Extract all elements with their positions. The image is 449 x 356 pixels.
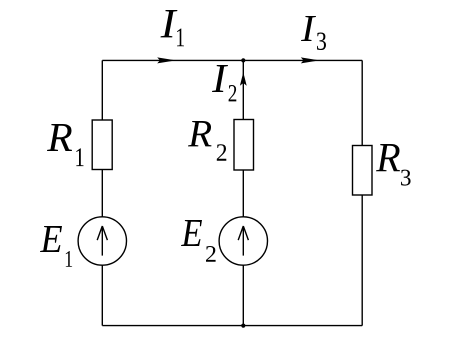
wire middle branch lower <box>242 265 244 325</box>
wire middle branch upper <box>242 60 244 119</box>
label I1 <box>161 10 185 46</box>
current arrow I3 <box>301 57 320 63</box>
wire top right segment <box>243 59 362 61</box>
resistor R2 <box>234 120 254 171</box>
wire left branch middle <box>101 170 103 218</box>
wire middle branch middle <box>242 170 244 217</box>
wire bottom <box>102 325 362 327</box>
wire top left segment <box>102 59 243 61</box>
label E2 <box>181 220 216 262</box>
source E2 <box>219 217 267 265</box>
wire right branch upper <box>361 60 363 145</box>
source E1 arrow <box>97 226 107 256</box>
label R3 <box>376 144 411 186</box>
node B bottom junction <box>241 324 245 328</box>
label R1 <box>47 124 84 166</box>
current arrow I2 <box>240 72 247 86</box>
label I3 <box>301 16 326 50</box>
source E1 <box>78 217 126 265</box>
resistor R3 <box>353 146 373 196</box>
label I2 <box>212 65 236 101</box>
wire left branch lower <box>101 265 103 325</box>
resistor R1 <box>92 120 112 170</box>
wire right branch lower <box>361 195 363 326</box>
label E1 <box>40 226 72 267</box>
label R2 <box>188 121 226 161</box>
current arrow I1 <box>157 57 176 63</box>
node A top junction <box>241 58 245 62</box>
wire left branch upper <box>101 60 103 120</box>
source E2 arrow <box>238 226 248 256</box>
